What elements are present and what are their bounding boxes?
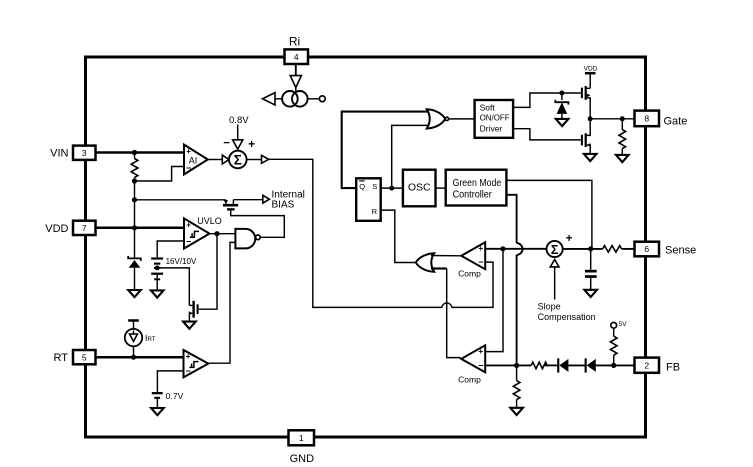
svg-text:Slope: Slope: [538, 301, 561, 311]
svg-text:UVLO: UVLO: [197, 216, 222, 226]
svg-text:Comp: Comp: [458, 374, 481, 384]
svg-text:5: 5: [82, 352, 87, 362]
svg-text:FB: FB: [666, 361, 680, 373]
svg-text:+: +: [566, 233, 573, 245]
svg-text:Sense: Sense: [665, 245, 696, 257]
svg-text:VDD: VDD: [584, 66, 598, 73]
svg-text:OSC: OSC: [408, 182, 431, 194]
svg-text:0.7V: 0.7V: [166, 391, 184, 401]
svg-text:+: +: [186, 352, 191, 361]
svg-text:4: 4: [294, 52, 299, 62]
svg-text:+: +: [248, 139, 255, 151]
svg-text:Σ: Σ: [234, 153, 242, 168]
svg-text:6: 6: [644, 244, 649, 254]
svg-text:Compensation: Compensation: [538, 312, 596, 322]
svg-text:BIAS: BIAS: [272, 200, 295, 211]
svg-text:AI: AI: [189, 156, 198, 166]
svg-text:Driver: Driver: [480, 124, 503, 134]
svg-text:8: 8: [644, 114, 649, 124]
svg-text:−: −: [186, 237, 191, 247]
svg-text:0.8V: 0.8V: [229, 115, 249, 126]
svg-text:Ri: Ri: [289, 35, 300, 49]
svg-text:Controller: Controller: [453, 189, 493, 200]
svg-text:5V: 5V: [619, 321, 628, 328]
svg-text:Soft: Soft: [480, 102, 496, 112]
svg-text:+: +: [478, 243, 483, 253]
svg-text:7: 7: [82, 223, 87, 233]
svg-text:VIN: VIN: [50, 148, 68, 160]
svg-text:3: 3: [82, 148, 87, 158]
svg-text:+: +: [478, 346, 483, 356]
svg-text:Comp: Comp: [458, 268, 481, 278]
svg-text:1: 1: [299, 433, 304, 443]
svg-text:Gate: Gate: [664, 115, 688, 127]
svg-text:16V/10V: 16V/10V: [166, 257, 197, 266]
svg-text:Green Mode: Green Mode: [453, 178, 502, 189]
svg-text:2: 2: [644, 361, 649, 371]
svg-text:−: −: [478, 257, 483, 267]
svg-text:−: −: [478, 360, 483, 370]
svg-text:IRT: IRT: [145, 333, 156, 343]
svg-text:VDD: VDD: [45, 223, 68, 235]
svg-text:Σ: Σ: [551, 243, 559, 257]
svg-text:ON/OFF: ON/OFF: [480, 112, 510, 122]
svg-text:+: +: [186, 221, 191, 230]
svg-text:S: S: [372, 182, 377, 191]
svg-text:R: R: [372, 207, 378, 216]
svg-text:RT: RT: [54, 352, 69, 364]
svg-text:GND: GND: [290, 453, 315, 465]
svg-text:Q: Q: [359, 182, 365, 191]
svg-text:−: −: [223, 138, 230, 150]
